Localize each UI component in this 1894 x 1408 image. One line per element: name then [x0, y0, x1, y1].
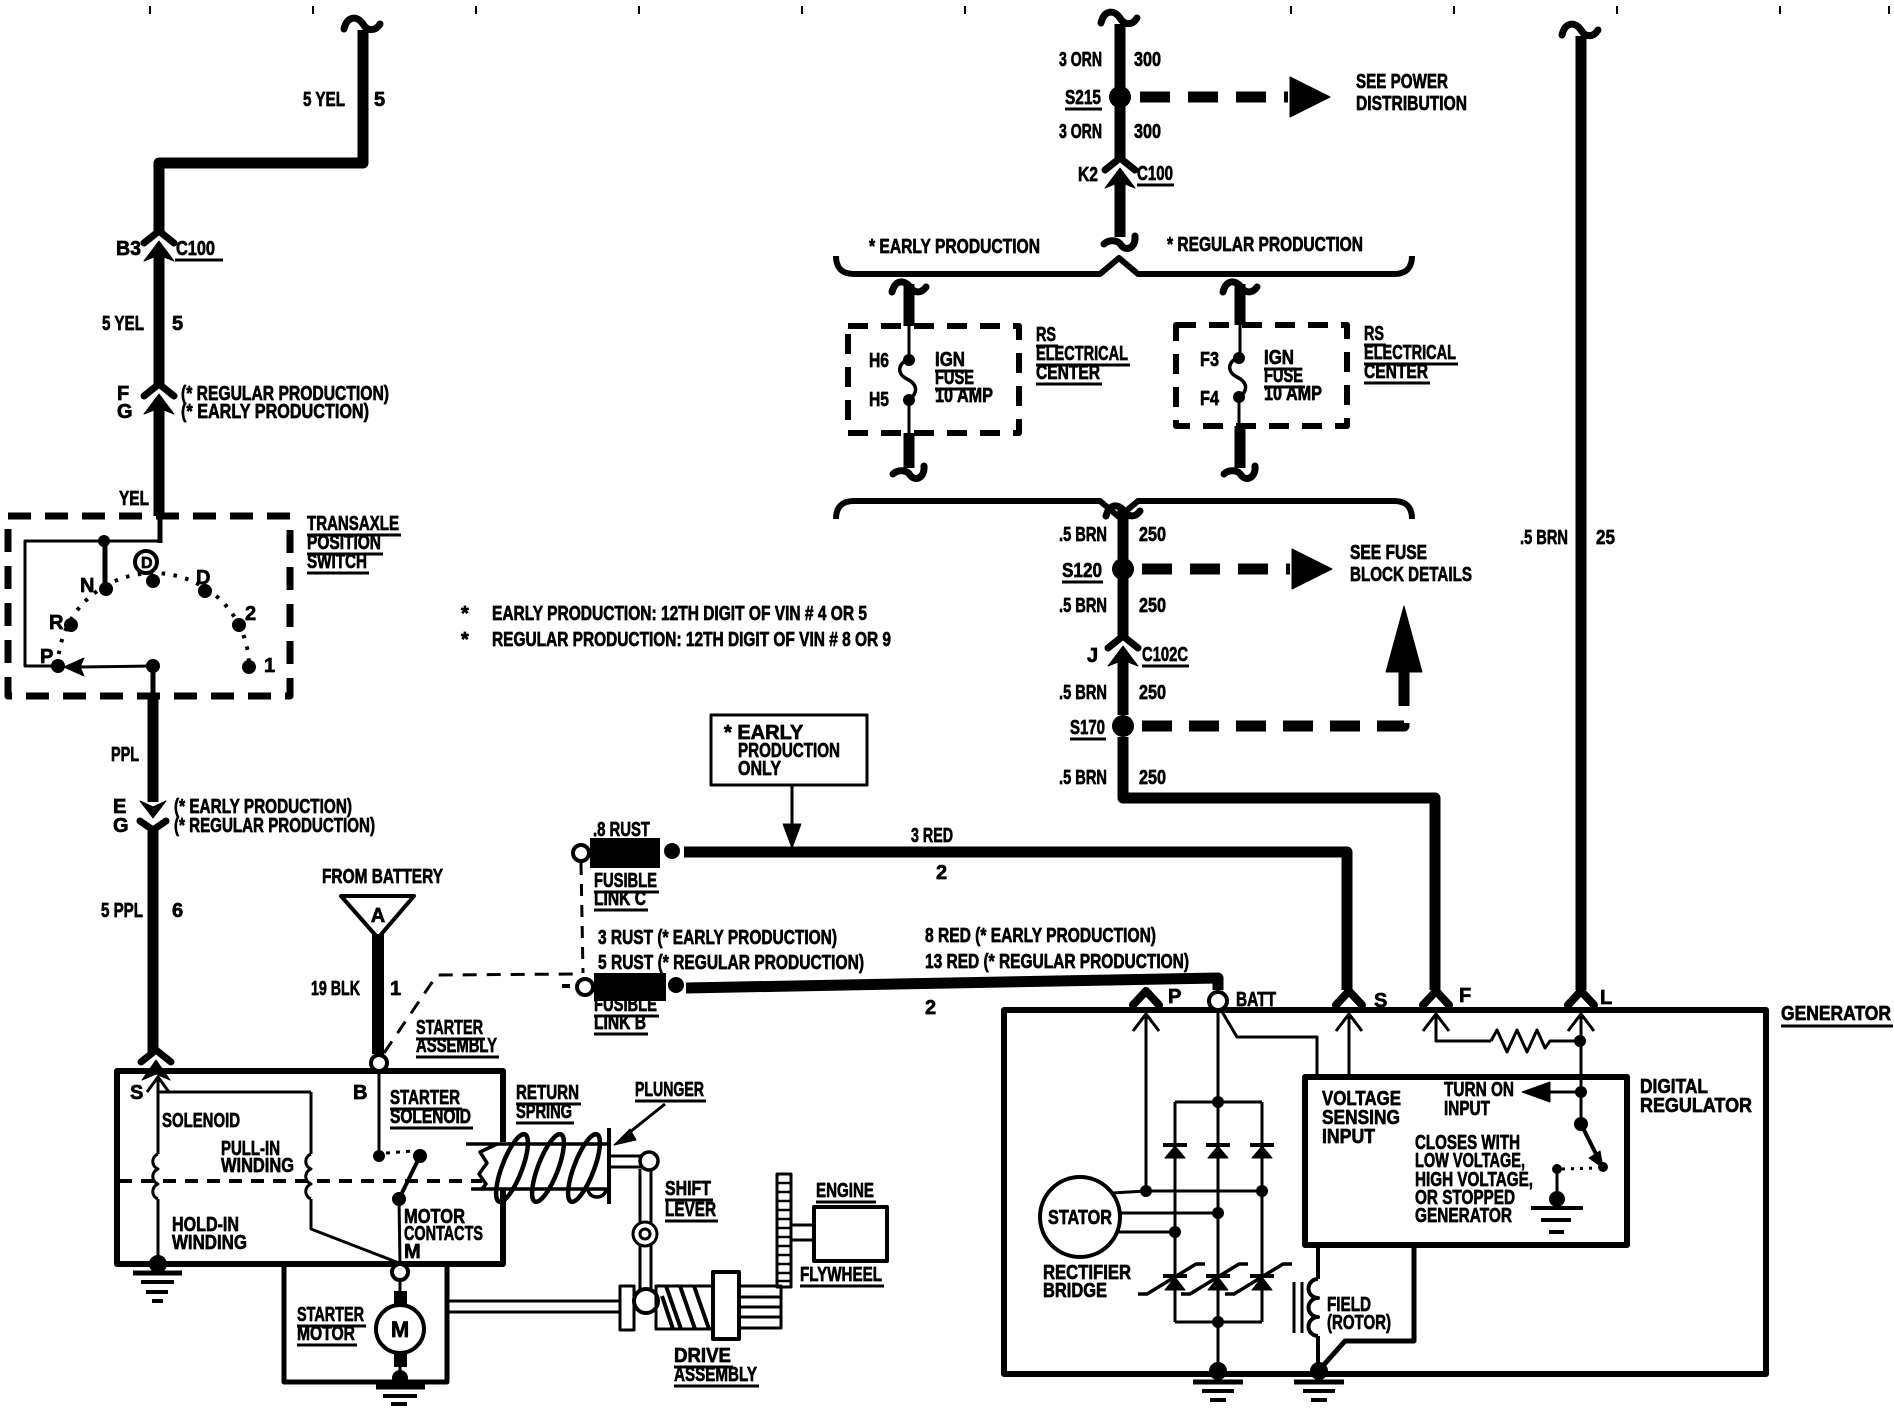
svg-text:ONLY: ONLY — [738, 758, 782, 780]
svg-text:BATT: BATT — [1236, 989, 1276, 1011]
battery feed triangle A — [341, 896, 414, 938]
terminal B — [353, 1055, 387, 1104]
avalanche diode 2 — [1181, 1264, 1248, 1294]
label IGN FUSE 10 AMP (regular) — [1264, 347, 1322, 405]
contact D — [196, 567, 212, 598]
wire 3 ORN from top — [1101, 12, 1137, 92]
wire stub to regular fuse box — [1223, 282, 1257, 325]
connector C102C pin J — [1108, 636, 1138, 715]
svg-text:YEL: YEL — [119, 488, 149, 510]
label K2 C100 — [1078, 163, 1174, 186]
svg-text:M: M — [391, 1317, 409, 1342]
digital regulator box — [1305, 1077, 1627, 1245]
svg-text:BLOCK DETAILS: BLOCK DETAILS — [1350, 564, 1472, 586]
wire 5 YEL from ignition switch (top left) — [159, 18, 380, 233]
label RECTIFIER BRIDGE — [1043, 1262, 1131, 1302]
engine box — [814, 1207, 887, 1261]
fusible link C — [573, 838, 680, 868]
label (* REGULAR PRODUCTION) — [181, 383, 389, 405]
svg-text:INPUT: INPUT — [1444, 1098, 1490, 1120]
wire stub to early fuse box — [892, 282, 926, 326]
rectifier bridge bus — [1175, 1096, 1262, 1371]
early production only box — [711, 715, 867, 848]
fuse IGN 10A (early) — [900, 326, 916, 433]
svg-text:300: 300 — [1134, 49, 1161, 71]
svg-text:DISTRIBUTION: DISTRIBUTION — [1356, 93, 1467, 115]
label F3 F4 — [1200, 349, 1220, 410]
field rotor coil — [1294, 1245, 1318, 1371]
svg-text:5 RUST (* REGULAR PRODUCTION): 5 RUST (* REGULAR PRODUCTION) — [598, 952, 864, 974]
switch wiper arm — [64, 658, 160, 696]
label 5 YEL 5 (lower) — [102, 313, 183, 335]
brace upper — [836, 256, 1412, 274]
regular RS electrical center dashed box — [1176, 325, 1347, 426]
svg-text:SPRING: SPRING — [516, 1101, 572, 1123]
svg-text:R: R — [49, 612, 64, 634]
connector S at starter solenoid — [130, 1050, 171, 1104]
dashed arrow SEE FUSE BLOCK DETAILS — [1142, 549, 1332, 589]
wire .5 BRN to F terminal — [1123, 737, 1435, 990]
svg-text:D: D — [141, 555, 153, 572]
svg-text:5 YEL: 5 YEL — [303, 89, 345, 111]
svg-text:L: L — [1600, 987, 1612, 1009]
svg-text:(* EARLY PRODUCTION): (* EARLY PRODUCTION) — [181, 401, 369, 423]
label DIGITAL REGULATOR — [1640, 1076, 1752, 1117]
starter motor box — [284, 1264, 447, 1382]
transaxle position switch dashed box — [8, 516, 290, 696]
svg-text:A: A — [371, 905, 385, 927]
label B3 C100 — [116, 238, 223, 260]
svg-text:G: G — [113, 815, 129, 837]
shift lever — [611, 1152, 658, 1313]
label SHIFT LEVER — [665, 1178, 718, 1221]
svg-text:M: M — [404, 1241, 421, 1263]
svg-text:13 RED (* REGULAR PRODUCTION): 13 RED (* REGULAR PRODUCTION) — [925, 951, 1189, 973]
ground at solenoid — [133, 1255, 182, 1301]
svg-text:G: G — [117, 401, 133, 423]
diode 3 — [1250, 1145, 1274, 1158]
label FLYWHEEL — [800, 1264, 884, 1286]
label YEL — [119, 488, 149, 510]
svg-text:D: D — [196, 567, 210, 589]
drive shaft — [447, 1301, 620, 1312]
svg-text:3 RED: 3 RED — [911, 825, 953, 847]
flywheel ring gear — [777, 1174, 791, 1287]
svg-text:GENERATOR: GENERATOR — [1415, 1205, 1512, 1227]
svg-text:* EARLY PRODUCTION: * EARLY PRODUCTION — [869, 236, 1040, 258]
note REGULAR PRODUCTION: VIN — [461, 629, 891, 651]
dashed arrow SEE POWER DISTRIBUTION — [1140, 77, 1330, 117]
label * EARLY PRODUCTION — [869, 236, 1040, 258]
svg-text:WINDING: WINDING — [221, 1155, 294, 1177]
dashed lead to fusible link B — [384, 974, 575, 1053]
svg-text:ENGINE: ENGINE — [816, 1180, 874, 1202]
wire .5 BRN below brace — [1106, 506, 1140, 560]
label RETURN SPRING — [516, 1082, 581, 1123]
svg-text:S170: S170 — [1070, 717, 1105, 739]
label TURN ON INPUT — [1444, 1079, 1514, 1120]
label SEE FUSE BLOCK DETAILS — [1350, 542, 1472, 586]
label MOTOR CONTACTS M — [404, 1206, 483, 1263]
label * REGULAR PRODUCTION — [1167, 234, 1363, 256]
svg-text:FLYWHEEL: FLYWHEEL — [800, 1264, 882, 1286]
splice S170 — [1070, 715, 1134, 739]
label 2 — [925, 997, 936, 1019]
svg-text:CENTER: CENTER — [1364, 361, 1428, 383]
contact 1 — [242, 655, 275, 677]
starter solenoid box — [117, 1071, 503, 1264]
terminal M — [392, 1264, 408, 1280]
svg-text:K2: K2 — [1078, 164, 1098, 186]
svg-text:25: 25 — [1596, 527, 1615, 549]
contact 2 — [232, 603, 256, 632]
connector C100 pin B3 — [144, 231, 174, 386]
label ENGINE — [816, 1180, 876, 1202]
svg-text:1: 1 — [264, 655, 275, 677]
label E G pins — [113, 796, 129, 837]
label PULL-IN WINDING — [221, 1138, 294, 1177]
avalanche diode 1 — [1138, 1264, 1205, 1294]
fusible link B — [562, 973, 684, 1001]
wire stub below early fuse box — [893, 433, 924, 478]
svg-text:250: 250 — [1139, 595, 1166, 617]
svg-text:F3: F3 — [1200, 349, 1219, 371]
label 5 PPL 6 — [101, 900, 183, 922]
label 19 BLK 1 — [311, 978, 401, 1000]
wire 3 RED to S terminal — [684, 852, 1347, 990]
label STARTER SOLENOID — [390, 1087, 473, 1128]
hold-in winding coil — [153, 1077, 158, 1264]
label .5 BRN 250 (2) — [1059, 595, 1166, 617]
svg-text:SWITCH: SWITCH — [307, 551, 367, 573]
svg-text:S215: S215 — [1065, 87, 1101, 109]
svg-text:SHIFT: SHIFT — [665, 1178, 711, 1200]
generator box — [1004, 1010, 1766, 1374]
label J C102C — [1087, 644, 1189, 667]
label SEE POWER DISTRIBUTION — [1356, 71, 1467, 115]
svg-text:3 ORN: 3 ORN — [1059, 121, 1102, 143]
svg-text:3 ORN: 3 ORN — [1059, 49, 1102, 71]
svg-text:STATOR: STATOR — [1048, 1207, 1112, 1229]
label (* EARLY PRODUCTION) — [181, 401, 369, 423]
svg-text:INPUT: INPUT — [1322, 1126, 1375, 1148]
svg-text:B: B — [353, 1082, 367, 1104]
svg-text:F4: F4 — [1200, 388, 1220, 410]
contact R — [49, 612, 78, 634]
plunger body and return spring — [466, 1128, 609, 1205]
svg-text:*: * — [461, 603, 469, 625]
stator leads — [1112, 1185, 1268, 1238]
contact P — [40, 646, 65, 673]
connector E/G — [140, 794, 166, 1052]
diode 1 — [1163, 1145, 1187, 1158]
wire 3 ORN (middle) — [1115, 102, 1126, 160]
contact D-circled — [135, 551, 160, 588]
svg-text:2: 2 — [936, 862, 947, 884]
svg-text:3 RUST (* EARLY PRODUCTION): 3 RUST (* EARLY PRODUCTION) — [598, 927, 837, 949]
flywheel to engine shaft — [791, 1225, 814, 1240]
svg-text:S: S — [1374, 990, 1387, 1012]
svg-text:P: P — [1168, 986, 1181, 1008]
svg-text:ASSEMBLY: ASSEMBLY — [416, 1035, 497, 1057]
svg-text:5: 5 — [172, 313, 183, 335]
connector C100 pin K2 — [1104, 158, 1135, 248]
wire stub below regular fuse box — [1224, 426, 1255, 478]
svg-text:* REGULAR PRODUCTION: * REGULAR PRODUCTION — [1167, 234, 1363, 256]
svg-text:BRIDGE: BRIDGE — [1043, 1280, 1107, 1302]
terminal L — [1568, 987, 1612, 1124]
avalanche diode 3 — [1225, 1264, 1292, 1294]
svg-text:(ROTOR): (ROTOR) — [1327, 1312, 1391, 1334]
svg-text:J: J — [1087, 645, 1098, 667]
svg-text:S120: S120 — [1062, 560, 1102, 582]
svg-text:10 AMP: 10 AMP — [1264, 383, 1322, 405]
regulator switch — [1549, 1117, 1608, 1207]
label IGN FUSE 10 AMP (early) — [935, 349, 993, 407]
stator — [1040, 1177, 1120, 1257]
pull-in winding coil — [158, 1092, 399, 1263]
svg-text:250: 250 — [1139, 524, 1166, 546]
svg-text:.8 RUST: .8 RUST — [593, 819, 650, 841]
label GENERATOR — [1781, 1003, 1893, 1026]
label 3 RED / 2 — [911, 825, 953, 884]
terminal F — [1423, 985, 1491, 1041]
label H6 H5 — [869, 350, 889, 411]
label FUSIBLE LINK B — [594, 994, 659, 1034]
page alignment ticks — [150, 6, 1889, 14]
svg-text:5 PPL: 5 PPL — [101, 900, 143, 922]
terminal BATT — [1209, 989, 1317, 1097]
svg-text:SEE POWER: SEE POWER — [1356, 71, 1448, 93]
label 8 RED / 13 RED — [925, 925, 1189, 973]
svg-text:MOTOR: MOTOR — [297, 1323, 355, 1345]
svg-text:10 AMP: 10 AMP — [935, 385, 993, 407]
terminal P — [1133, 986, 1181, 1186]
label (* EARLY PRODUCTION) — [174, 796, 352, 818]
svg-text:8 RED (* EARLY PRODUCTION): 8 RED (* EARLY PRODUCTION) — [925, 925, 1156, 947]
label CLOSES WITH ... — [1415, 1132, 1533, 1227]
early RS electrical center dashed box — [848, 326, 1019, 433]
svg-text:H5: H5 — [869, 389, 889, 411]
svg-text:LINK B: LINK B — [594, 1012, 646, 1034]
splice S215 — [1065, 86, 1131, 109]
svg-text:B3: B3 — [116, 238, 141, 260]
label STARTER MOTOR — [297, 1304, 366, 1345]
label 3 ORN 300 (top) — [1059, 49, 1161, 71]
svg-text:.5 BRN: .5 BRN — [1059, 524, 1107, 546]
svg-text:N: N — [80, 575, 94, 597]
svg-text:CENTER: CENTER — [1036, 362, 1100, 384]
diode 2 — [1206, 1145, 1230, 1158]
wire 19 BLK — [372, 934, 384, 1054]
svg-text:C100: C100 — [1137, 163, 1173, 185]
turn-on input arrow — [1522, 1082, 1587, 1102]
motor contacts — [373, 1072, 427, 1264]
label 3 ORN 300 (middle) — [1059, 121, 1161, 143]
svg-text:250: 250 — [1139, 767, 1166, 789]
label HOLD-IN WINDING — [172, 1214, 247, 1254]
svg-text:C102C: C102C — [1142, 644, 1188, 666]
label RS ELECTRICAL CENTER (regular) — [1364, 323, 1458, 383]
wire .5 BRN to L terminal — [1562, 24, 1598, 990]
brace lower — [836, 501, 1412, 519]
dashed feed to fuse block (corner + arrow up) — [1142, 606, 1422, 726]
splice S120 — [1062, 558, 1134, 582]
svg-text:5: 5 — [374, 89, 385, 111]
label .8 RUST — [593, 819, 650, 841]
svg-text:PLUNGER: PLUNGER — [635, 1079, 704, 1101]
svg-text:SEE FUSE: SEE FUSE — [1350, 542, 1427, 564]
label .5 BRN 250 (3) — [1059, 682, 1166, 704]
drive assembly — [620, 1272, 781, 1339]
svg-text:250: 250 — [1139, 682, 1166, 704]
label TRANSAXLE POSITION SWITCH — [307, 513, 401, 573]
label FROM BATTERY — [322, 866, 444, 888]
svg-text:C100: C100 — [176, 238, 215, 260]
svg-text:.5 BRN: .5 BRN — [1059, 595, 1107, 617]
ground at starter motor — [376, 1370, 425, 1404]
svg-text:REGULAR PRODUCTION: 12TH DIGIT: REGULAR PRODUCTION: 12TH DIGIT OF VIN # … — [492, 629, 891, 651]
svg-text:FROM BATTERY: FROM BATTERY — [322, 866, 444, 888]
resistor F-L — [1491, 1030, 1586, 1052]
svg-text:19 BLK: 19 BLK — [311, 978, 360, 1000]
svg-text:EARLY PRODUCTION: 12TH DIGIT O: EARLY PRODUCTION: 12TH DIGIT OF VIN # 4 … — [492, 603, 867, 625]
switch contact arc (dotted) — [58, 573, 249, 667]
label .5 BRN 250 (1) — [1059, 524, 1166, 546]
dashed link between fusible links — [581, 863, 583, 973]
ground at rectifier — [1193, 1362, 1243, 1400]
label RS ELECTRICAL CENTER (early) — [1036, 324, 1130, 384]
contact N — [80, 575, 113, 597]
label SOLENOID — [162, 1110, 240, 1132]
svg-text:(* REGULAR PRODUCTION): (* REGULAR PRODUCTION) — [174, 815, 375, 837]
starter motor M — [376, 1280, 424, 1374]
ground at field — [1294, 1362, 1344, 1400]
label .5 BRN 250 (4) — [1059, 767, 1166, 789]
plunger dashed link line — [119, 1179, 482, 1183]
wire 13 RED to BATT — [686, 978, 1218, 990]
terminal S — [1336, 990, 1387, 1077]
label (* REGULAR PRODUCTION) — [174, 815, 375, 837]
svg-text:H6: H6 — [869, 350, 889, 372]
svg-text:.5 BRN: .5 BRN — [1520, 527, 1568, 549]
label 5 YEL 5 (upper) — [303, 89, 385, 111]
ground in regulator — [1531, 1208, 1583, 1232]
label DRIVE ASSEMBLY — [674, 1345, 759, 1386]
svg-text:LINK C: LINK C — [594, 888, 646, 910]
wire .5 BRN (2) — [1118, 575, 1129, 636]
svg-text:ASSEMBLY: ASSEMBLY — [674, 1364, 757, 1386]
svg-text:SOLENOID: SOLENOID — [390, 1106, 471, 1128]
svg-text:*: * — [461, 629, 469, 651]
svg-text:.5 BRN: .5 BRN — [1059, 682, 1107, 704]
svg-text:2: 2 — [245, 603, 256, 625]
regulator ground return — [1321, 1245, 1414, 1368]
svg-text:WINDING: WINDING — [172, 1232, 247, 1254]
svg-text:1: 1 — [390, 978, 401, 1000]
label F G pins — [117, 383, 133, 423]
label PPL — [111, 744, 139, 766]
wire switch feed — [25, 535, 160, 666]
connector F/G — [144, 384, 174, 543]
label FIELD (ROTOR) — [1327, 1294, 1391, 1334]
svg-text:P: P — [40, 646, 53, 668]
svg-text:GENERATOR: GENERATOR — [1781, 1003, 1891, 1025]
note EARLY PRODUCTION: VIN — [461, 603, 867, 625]
svg-text:2: 2 — [925, 997, 936, 1019]
fuse IGN 10A (regular) — [1230, 325, 1246, 426]
svg-text:300: 300 — [1134, 121, 1161, 143]
svg-text:SOLENOID: SOLENOID — [162, 1110, 240, 1132]
label .5 BRN 25 — [1520, 527, 1615, 549]
svg-text:5 YEL: 5 YEL — [102, 313, 144, 335]
label FUSIBLE LINK C — [594, 870, 659, 910]
svg-text:.5 BRN: .5 BRN — [1059, 767, 1107, 789]
label VOLTAGE SENSING INPUT — [1322, 1088, 1401, 1148]
svg-text:6: 6 — [172, 900, 183, 922]
svg-text:LEVER: LEVER — [665, 1199, 716, 1221]
label PLUNGER with arrow — [614, 1079, 706, 1145]
svg-text:PPL: PPL — [111, 744, 139, 766]
svg-text:REGULATOR: REGULATOR — [1640, 1095, 1752, 1117]
svg-text:S: S — [130, 1082, 143, 1104]
label 3 RUST / 5 RUST — [598, 927, 864, 974]
label STARTER ASSEMBLY — [416, 1017, 499, 1057]
svg-text:F: F — [1459, 985, 1471, 1007]
wire PPL — [148, 694, 159, 802]
